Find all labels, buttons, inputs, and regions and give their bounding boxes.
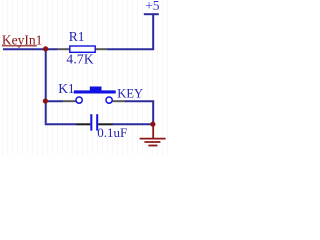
power port +5: [144, 0, 160, 14]
svg-text:4.7K: 4.7K: [66, 52, 93, 67]
net label KeyIn1: [2, 32, 43, 47]
wire button right to ground corner: [125, 101, 154, 124]
resistor R1: [58, 29, 108, 66]
wire KeyIn1 horizontal: [3, 48, 58, 50]
wire capacitor right to ground junction: [112, 123, 152, 125]
ground: [140, 124, 166, 145]
wire vertical left: [45, 49, 47, 123]
wire bottom left horizontal: [45, 123, 77, 125]
svg-text:KeyIn1: KeyIn1: [2, 32, 43, 47]
wire button row horizontal: [46, 100, 63, 102]
svg-text:0.1uF: 0.1uF: [97, 125, 127, 140]
svg-text:R1: R1: [69, 29, 85, 44]
push button K1: [58, 81, 143, 103]
svg-text:K1: K1: [58, 81, 74, 96]
junction dot top left: [43, 46, 48, 51]
capacitor C 0.1uF: [76, 114, 127, 140]
junction dot ground: [150, 122, 155, 127]
svg-text:KEY: KEY: [117, 86, 143, 100]
svg-text:+5: +5: [145, 0, 160, 13]
wire resistor to +5 corner: [107, 13, 153, 49]
junction dot middle left: [43, 98, 48, 103]
